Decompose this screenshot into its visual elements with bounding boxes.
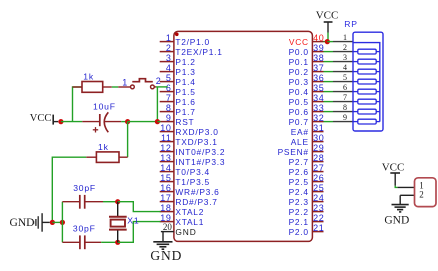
resistor R1 1k (reset pullup): [73, 82, 112, 93]
switch S1 (reset pushbutton): [118, 79, 156, 89]
svg-text:17: 17: [160, 193, 171, 203]
pin 22 (P2.1): [289, 213, 325, 227]
pin 30 (ALE): [291, 133, 325, 147]
RP pin 1 line: [333, 41, 353, 43]
wire VCC node to capacitor C2: [61, 121, 82, 123]
power port VCC (top): [316, 10, 339, 33]
svg-text:40: 40: [313, 33, 324, 43]
pin 36 (P0.3): [289, 73, 325, 87]
power port VCC (bottom right): [382, 161, 405, 185]
IC U1 body (8051 MCU): [174, 31, 313, 241]
svg-text:1: 1: [122, 77, 128, 87]
svg-text:6: 6: [343, 83, 347, 92]
svg-text:12: 12: [160, 143, 171, 153]
resistor pack RP body: [353, 32, 383, 131]
svg-text:P1.7: P1.7: [175, 107, 195, 117]
pin 33 (P0.6): [289, 103, 325, 117]
svg-text:39: 39: [313, 43, 324, 53]
svg-text:10: 10: [160, 123, 171, 133]
svg-text:TXD/P3.1: TXD/P3.1: [175, 137, 217, 147]
svg-text:RP: RP: [344, 19, 358, 29]
RP internal resistor 7: [353, 109, 380, 114]
svg-text:RST: RST: [175, 117, 194, 127]
svg-text:VCC: VCC: [289, 37, 309, 47]
svg-text:7: 7: [166, 93, 172, 103]
RP internal resistor 2: [353, 59, 380, 64]
wire switch pin2 stub right: [156, 86, 168, 88]
pin 38 (P0.1): [289, 53, 325, 67]
pin 35 (P0.4): [289, 83, 325, 97]
RP pin 7 line: [333, 101, 353, 103]
wire pin 34 to RP: [324, 101, 334, 103]
svg-text:P0.2: P0.2: [289, 67, 309, 77]
svg-text:13: 13: [160, 153, 171, 163]
wire pin40 to VCC junction: [324, 41, 329, 43]
svg-text:11: 11: [161, 133, 172, 143]
svg-text:4: 4: [166, 63, 172, 73]
RP internal resistor 8: [353, 119, 380, 124]
RP pin 2 line: [333, 51, 353, 53]
svg-text:9: 9: [166, 113, 172, 123]
junction dot RST/R2: [125, 119, 130, 124]
svg-text:15: 15: [160, 173, 171, 183]
wire VCC elbow (green): [395, 186, 397, 188]
junction dot at VCC node: [58, 119, 63, 124]
svg-text:INT0#/P3.2: INT0#/P3.2: [175, 147, 225, 157]
svg-text:T0/P3.4: T0/P3.4: [175, 167, 210, 177]
pin 34 (P0.5): [289, 93, 325, 107]
connector J1 pin 2 line: [400, 194, 414, 196]
svg-text:3: 3: [343, 53, 347, 62]
pin 21 (P2.0): [289, 223, 325, 237]
wire pin 37 to RP: [324, 71, 334, 73]
svg-text:35: 35: [313, 83, 324, 93]
pin 10 (RXD/P3.0): [160, 123, 219, 137]
svg-text:P1.5: P1.5: [175, 87, 195, 97]
RP internal resistor 1: [353, 49, 380, 54]
pin 28 (P2.7): [289, 153, 325, 167]
wire R2 to GND bus: [52, 157, 86, 222]
RP pin 6 line: [333, 91, 353, 93]
RP pin 3 line: [333, 61, 353, 63]
svg-text:2: 2: [166, 43, 172, 53]
svg-text:WR#/P3.6: WR#/P3.6: [175, 187, 219, 197]
wire C2 to RST junction: [121, 121, 127, 123]
pin 23 (P2.2): [289, 203, 325, 217]
wire pin 40 junction to RP pin 1: [327, 41, 333, 43]
IC U1 pin-1 origin marker dot: [175, 33, 179, 37]
svg-text:GND: GND: [384, 215, 409, 227]
svg-text:P0.7: P0.7: [289, 117, 309, 127]
pin 29 (PSEN#): [278, 143, 325, 157]
RP internal resistor 6: [353, 99, 380, 104]
svg-text:9: 9: [343, 113, 347, 122]
svg-text:P0.5: P0.5: [289, 97, 309, 107]
wire switch pin2 down to RST net: [156, 87, 158, 122]
wire up-branch to resistor R1: [73, 87, 83, 122]
svg-text:EA#: EA#: [291, 127, 309, 137]
pin 17 (RD#/P3.7): [160, 193, 218, 207]
pin 32 (P0.7): [289, 113, 325, 127]
svg-text:P0.6: P0.6: [289, 107, 309, 117]
junction dot GND bus 1: [50, 220, 55, 225]
junction dot GND bus 2: [60, 220, 65, 225]
svg-text:30pF: 30pF: [73, 224, 96, 234]
svg-text:23: 23: [313, 203, 324, 213]
svg-text:1k: 1k: [83, 71, 94, 81]
svg-text:XTAL2: XTAL2: [175, 207, 204, 217]
wire pin 35 to RP: [324, 91, 334, 93]
crystal X1: [109, 202, 127, 243]
svg-text:P2.4: P2.4: [289, 187, 309, 197]
svg-text:4: 4: [343, 63, 347, 72]
svg-text:32: 32: [313, 113, 324, 123]
pin 7 (P1.6): [160, 93, 196, 107]
svg-text:VCC: VCC: [30, 113, 52, 124]
svg-text:28: 28: [313, 153, 324, 163]
pin 2 (T2EX/P1.1): [160, 43, 223, 57]
pin 19 (XTAL1): [160, 213, 204, 227]
svg-text:3: 3: [166, 53, 172, 63]
junction dot crystal top: [115, 199, 120, 204]
pin 8 (P1.7): [160, 103, 196, 117]
svg-text:X1: X1: [127, 216, 139, 226]
svg-text:10uF: 10uF: [93, 102, 116, 112]
ground symbol (under chip): [153, 242, 172, 249]
svg-text:27: 27: [313, 163, 324, 173]
svg-text:14: 14: [160, 163, 171, 173]
svg-text:37: 37: [313, 63, 324, 73]
pin 18 (XTAL2): [160, 203, 204, 217]
pin 20 GND line: [161, 222, 197, 237]
svg-text:36: 36: [313, 73, 324, 83]
svg-text:24: 24: [313, 193, 324, 203]
pin 25 (P2.4): [289, 183, 325, 197]
svg-text:RD#/P3.7: RD#/P3.7: [175, 197, 217, 207]
svg-text:P2.1: P2.1: [289, 217, 309, 227]
svg-text:25: 25: [313, 183, 324, 193]
svg-text:VCC: VCC: [382, 161, 405, 173]
capacitor C4 30pF: [62, 235, 101, 249]
svg-text:P2.3: P2.3: [289, 197, 309, 207]
svg-text:30: 30: [313, 133, 324, 143]
pin 15 (T1/P3.5): [160, 173, 210, 187]
RP pin 8 line: [333, 111, 353, 113]
wire GND bus vertical (C3 to C4): [61, 202, 63, 243]
svg-text:GND: GND: [150, 248, 182, 263]
connector J1 body: [415, 178, 437, 207]
svg-text:GND: GND: [10, 217, 35, 229]
wire crystal bottom to XTAL1 pin 19: [118, 222, 161, 243]
RP pin 5 line: [333, 81, 353, 83]
pin 40 (VCC): [289, 33, 324, 47]
pin 16 (WR#/P3.6): [160, 183, 220, 197]
wire R1 to switch S1: [112, 86, 119, 88]
svg-text:26: 26: [313, 173, 324, 183]
svg-text:ALE: ALE: [291, 137, 309, 147]
svg-text:GND: GND: [175, 227, 196, 237]
svg-text:2: 2: [156, 76, 162, 86]
pin 37 (P0.2): [289, 63, 325, 77]
pin 12 (INT0#/P3.2): [160, 143, 226, 157]
RP internal resistor 4: [353, 79, 380, 84]
power port VCC (left): [30, 113, 58, 124]
svg-text:P1.3: P1.3: [175, 67, 195, 77]
wire RST junction down to R2: [127, 122, 129, 158]
svg-text:P1.4: P1.4: [175, 77, 195, 87]
svg-text:P2.6: P2.6: [289, 167, 309, 177]
svg-text:P1.2: P1.2: [175, 57, 195, 67]
svg-text:T1/P3.5: T1/P3.5: [175, 177, 210, 187]
pin 27 (P2.6): [289, 163, 325, 177]
pin 6 (P1.5): [160, 83, 196, 97]
svg-text:VCC: VCC: [316, 10, 339, 22]
svg-text:T2/P1.0: T2/P1.0: [175, 37, 210, 47]
svg-text:7: 7: [343, 93, 347, 102]
svg-text:P1.6: P1.6: [175, 97, 195, 107]
svg-text:33: 33: [313, 103, 324, 113]
svg-text:20: 20: [163, 222, 173, 232]
svg-text:2: 2: [343, 43, 347, 52]
pin 4 (P1.3): [160, 63, 196, 77]
pin 39 (P0.0): [289, 43, 325, 57]
wire RST junction to switch junction: [128, 121, 158, 123]
junction dot switch/RST: [155, 119, 160, 124]
svg-text:1: 1: [166, 33, 172, 43]
wire C4 to crystal node bottom: [101, 241, 118, 243]
wire pin 33 to RP: [324, 111, 334, 113]
pin 13 (INT1#/P3.3): [160, 153, 226, 167]
RP pin 4 line: [333, 71, 353, 73]
svg-text:22: 22: [313, 213, 324, 223]
pin 11 (TXD/P3.1): [160, 133, 218, 147]
svg-text:34: 34: [313, 93, 324, 103]
svg-text:P2.5: P2.5: [289, 177, 309, 187]
wire pin2 to ground: [399, 195, 401, 204]
RP common bus: [353, 43, 380, 122]
svg-text:P2.0: P2.0: [289, 227, 309, 237]
wire pin 39 to RP: [324, 51, 334, 53]
svg-text:XTAL1: XTAL1: [175, 217, 204, 227]
svg-text:8: 8: [343, 103, 347, 112]
pin 3 (P1.2): [160, 53, 196, 67]
capacitor C3 30pF: [62, 195, 103, 209]
power port GND (left): [10, 213, 50, 232]
svg-text:2: 2: [419, 190, 424, 200]
resistor R2 1k (reset pulldown): [86, 152, 127, 163]
ground symbol (bottom right): [392, 205, 409, 212]
svg-text:P0.1: P0.1: [289, 57, 309, 67]
pin 26 (P2.5): [289, 173, 325, 187]
svg-text:P0.4: P0.4: [289, 87, 309, 97]
wire pin 38 to RP: [324, 61, 334, 63]
RP internal resistor 5: [353, 89, 380, 94]
pin 14 (T0/P3.4): [160, 163, 210, 177]
svg-text:8: 8: [166, 103, 172, 113]
wire crystal top to XTAL2 pin 18: [118, 202, 161, 212]
svg-text:PSEN#: PSEN#: [278, 147, 309, 157]
junction dot crystal bottom: [115, 240, 120, 245]
svg-text:6: 6: [166, 83, 172, 93]
svg-text:INT1#/P3.3: INT1#/P3.3: [175, 157, 225, 167]
pin 1 (T2/P1.0): [160, 33, 210, 47]
svg-text:21: 21: [313, 223, 324, 233]
connector J1 pin 1 line: [398, 186, 415, 188]
wire VCC drop (green): [327, 33, 329, 42]
pin 31 (EA#): [291, 123, 325, 137]
RP pin 9 line: [333, 121, 353, 123]
svg-text:5: 5: [166, 73, 172, 83]
wire to RST pin 9: [157, 121, 160, 123]
svg-text:1: 1: [343, 33, 347, 42]
pin 24 (P2.3): [289, 193, 325, 207]
svg-text:T2EX/P1.1: T2EX/P1.1: [175, 47, 222, 57]
RP internal resistor 3: [353, 69, 380, 74]
svg-text:P0.0: P0.0: [289, 47, 309, 57]
svg-text:P2.2: P2.2: [289, 207, 309, 217]
wire between GND dots: [52, 221, 62, 223]
svg-text:30pF: 30pF: [73, 183, 96, 193]
svg-text:RXD/P3.0: RXD/P3.0: [175, 127, 218, 137]
junction dot VCC/pin40: [325, 39, 330, 44]
wire pin 36 to RP: [324, 81, 334, 83]
svg-text:1k: 1k: [98, 142, 109, 152]
svg-text:38: 38: [313, 53, 324, 63]
svg-text:16: 16: [160, 183, 171, 193]
svg-text:P0.3: P0.3: [289, 77, 309, 87]
svg-text:P2.7: P2.7: [289, 157, 309, 167]
svg-text:18: 18: [160, 203, 171, 213]
pin 9 (RST): [160, 113, 195, 127]
wire pin 32 to RP: [324, 121, 334, 123]
svg-text:5: 5: [343, 73, 347, 82]
wire C3 to crystal node top: [103, 201, 118, 203]
pin 5 (P1.4): [160, 73, 196, 87]
capacitor C2 10uF (electrolytic): [82, 112, 121, 132]
svg-text:29: 29: [313, 143, 324, 153]
svg-text:31: 31: [313, 123, 324, 133]
wire pin20 to ground: [162, 232, 164, 242]
